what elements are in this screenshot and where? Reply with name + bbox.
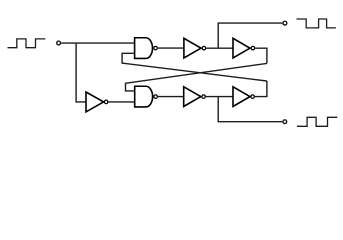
wire U7 output to inverter U8 [206,96,233,98]
input terminal [57,41,61,45]
inverter U7 body [184,87,201,107]
wire U5 output to inverter U7 [158,96,184,98]
cross wire U8 output to NAND U1 input B [122,53,267,81]
wire branch down to bottom output terminal [218,97,282,122]
inverter U2 body [86,92,104,112]
input waveform [8,39,46,48]
wire U1 output to inverter U3 [158,47,184,49]
bottom output terminal [283,120,287,124]
wire U8 output feedback corner [255,81,267,97]
nand U5 bubble [154,95,158,99]
cross wire U4 output to NAND U5 input A [126,63,267,91]
nand U1 bubble [154,46,158,50]
wire branch input to inverter U2 [76,43,86,102]
bottom output waveform [297,117,337,126]
nand U5 body [135,86,153,107]
nand U1 body [135,38,153,59]
top output terminal [283,21,287,25]
inverter U7 bubble [202,95,206,99]
wire U4 output feedback corner [255,48,267,63]
wire U3 output to inverter U4 [206,47,233,49]
inverter U4 bubble [251,46,255,50]
inverter U3 bubble [202,46,206,50]
inverter U3 body [184,38,201,58]
inverter U2 bubble [104,100,108,104]
wire input terminal to NAND U1 input A [61,42,134,44]
wire U2 output to NAND U5 input B [108,101,134,103]
inverter U8 bubble [251,95,255,99]
wire branch up to top output terminal [218,23,282,48]
inverter U8 body [233,87,250,107]
top output waveform [297,19,336,28]
inverter U4 body [233,38,250,58]
